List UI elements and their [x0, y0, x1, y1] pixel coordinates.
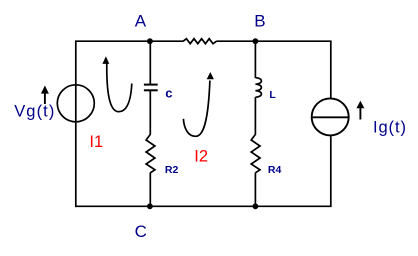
wire right vertical upper: [330, 41, 332, 98]
voltage source U1 circle: [57, 85, 94, 122]
mesh current arrow I1: [102, 56, 131, 112]
capacitor C plates: [144, 85, 158, 91]
current source U2 circle: [312, 98, 349, 135]
wire bottom: [76, 205, 332, 207]
junction dot below B: [253, 203, 259, 209]
resistor R4: [251, 134, 260, 172]
svg-text:B: B: [254, 12, 265, 31]
wire left vertical: [75, 40, 77, 207]
arrow for Vg(t): [41, 86, 49, 105]
wire right vertical lower: [330, 135, 332, 206]
node A junction dot: [147, 38, 153, 44]
svg-text:I2: I2: [194, 148, 208, 166]
current source bar: [312, 116, 349, 118]
wire R2 to bottom: [149, 173, 151, 207]
wire top-left: node A to top-left corner: [76, 40, 184, 42]
wire R4 to bottom: [254, 173, 256, 207]
resistor R1 (between A and B): [183, 39, 216, 44]
svg-text:L: L: [269, 89, 276, 101]
mesh current arrow I2: [183, 72, 214, 136]
resistor R2: [146, 134, 155, 172]
svg-text:c: c: [165, 86, 172, 101]
wire inductor to R4: [254, 97, 256, 134]
inductor L coil: [255, 78, 261, 98]
svg-text:R2: R2: [165, 164, 179, 176]
wire A down to capacitor: [149, 41, 151, 84]
svg-text:A: A: [135, 12, 147, 31]
wire B down to inductor: [254, 41, 256, 78]
wire top-right: resistor to right corner: [216, 40, 331, 42]
node C junction dot: [147, 203, 153, 209]
node B junction dot: [253, 38, 259, 44]
svg-text:I1: I1: [89, 133, 103, 151]
svg-text:Vg(t): Vg(t): [14, 102, 55, 120]
arrow for Ig(t): [356, 101, 364, 120]
svg-text:R4: R4: [268, 164, 282, 176]
svg-text:Ig(t): Ig(t): [373, 119, 407, 137]
wire capacitor to R2: [149, 90, 151, 134]
svg-text:C: C: [135, 222, 147, 241]
